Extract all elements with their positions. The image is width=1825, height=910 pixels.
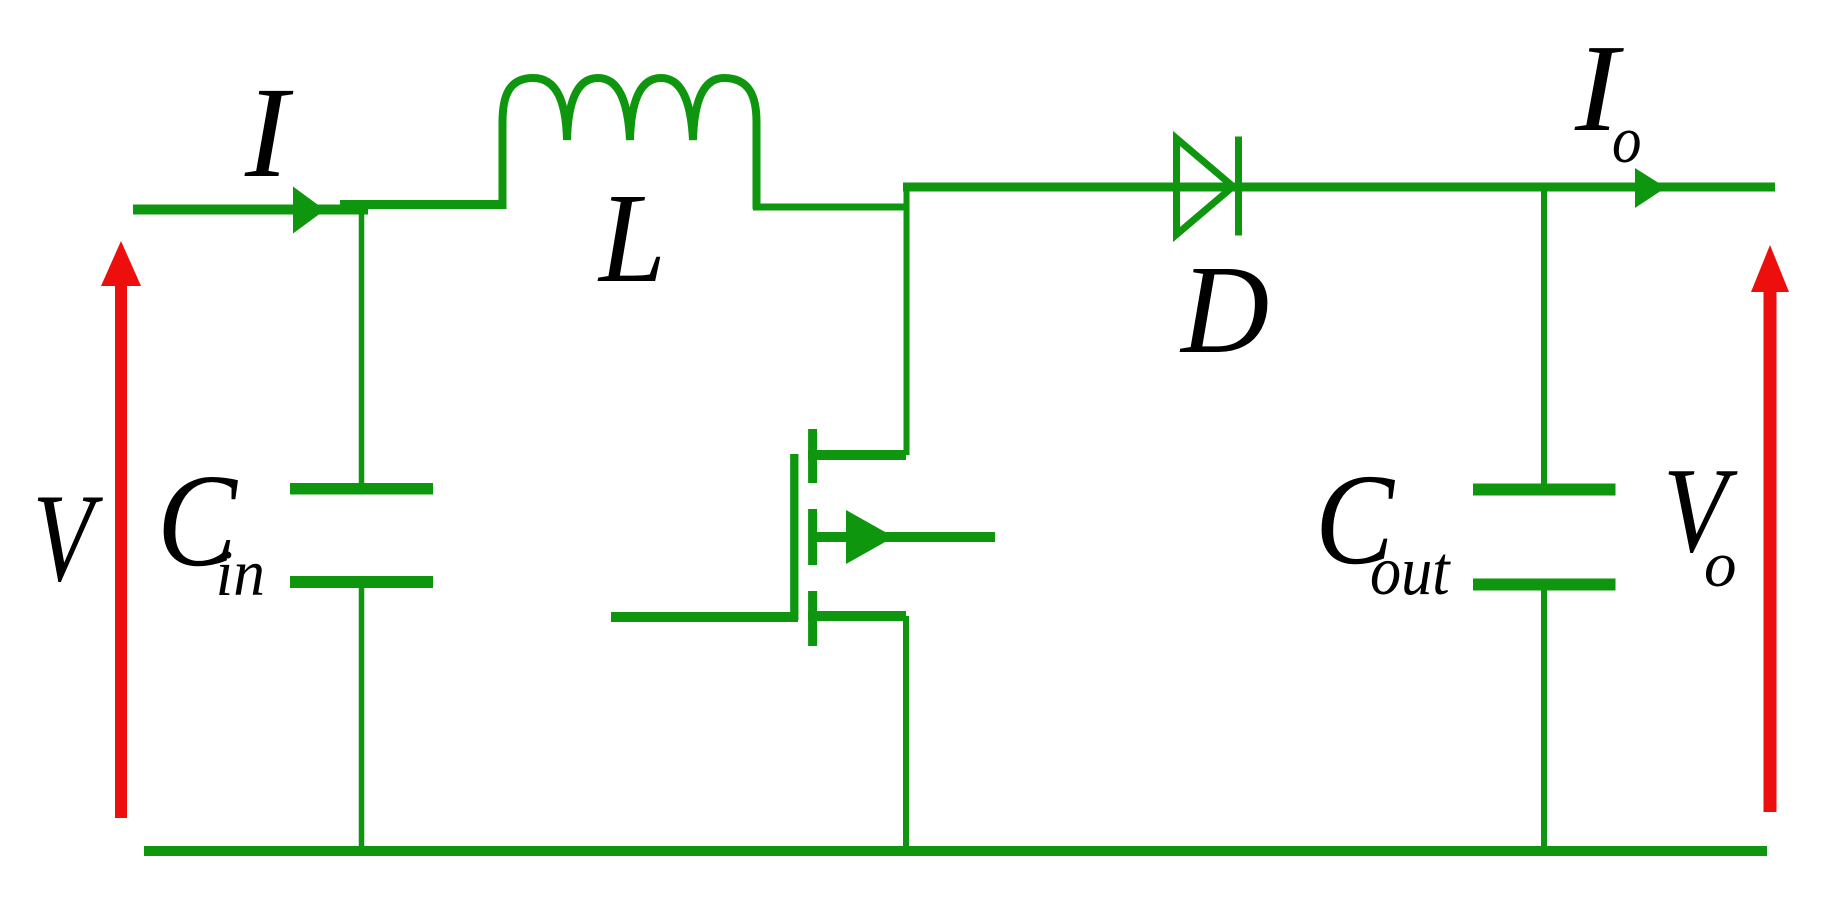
label Cin subscript in bbox=[216, 536, 265, 609]
transistor Q1 source lead bbox=[808, 611, 906, 621]
wire source riser bbox=[903, 616, 909, 851]
diode D triangle bbox=[1177, 139, 1234, 235]
capacitor Cout top plate bbox=[1473, 484, 1616, 496]
transistor Q1 gate lead wire bbox=[611, 612, 798, 622]
wire Cout top lead bbox=[1541, 187, 1547, 486]
svg-text:I: I bbox=[244, 61, 294, 205]
current arrowhead Io bbox=[1635, 168, 1666, 208]
svg-text:o: o bbox=[1612, 103, 1641, 177]
transistor Q1 channel middle bar bbox=[808, 509, 817, 565]
wire input segment bbox=[133, 205, 368, 215]
transistor Q1 body lead wire bbox=[813, 532, 995, 542]
voltage arrow Vo head bbox=[1751, 245, 1789, 292]
inductor L bbox=[503, 78, 757, 209]
label Cout bbox=[1315, 447, 1396, 591]
label Vo subscript o bbox=[1704, 529, 1737, 601]
label Io I bbox=[1574, 19, 1624, 157]
label V bbox=[33, 468, 104, 608]
capacitor Cout bottom plate bbox=[1473, 579, 1616, 591]
svg-text:o: o bbox=[1704, 529, 1737, 601]
wire ground rail bbox=[144, 846, 1767, 856]
wire node A to inductor bbox=[340, 200, 506, 209]
label I bbox=[244, 61, 294, 205]
voltage arrow Vo shaft bbox=[1764, 289, 1777, 812]
voltage arrow V shaft bbox=[115, 283, 127, 818]
label D bbox=[1179, 239, 1269, 379]
wire Cout bottom lead bbox=[1541, 587, 1547, 851]
diode D cathode bar bbox=[1235, 137, 1242, 236]
current arrowhead I bbox=[293, 187, 325, 234]
transistor Q1 channel bottom bar bbox=[808, 591, 817, 646]
transistor Q1 gate bar bbox=[790, 454, 798, 620]
svg-text:L: L bbox=[597, 167, 666, 309]
label Vo V bbox=[1663, 442, 1738, 578]
transistor Q1 drain lead bbox=[808, 450, 906, 460]
svg-text:out: out bbox=[1370, 533, 1451, 610]
transistor Q1 body arrowhead bbox=[846, 510, 894, 564]
label Io subscript o bbox=[1612, 103, 1641, 177]
voltage arrow V head bbox=[101, 241, 141, 286]
label L bbox=[597, 167, 666, 309]
wire Cin top lead bbox=[359, 204, 365, 486]
svg-text:D: D bbox=[1179, 239, 1269, 379]
svg-text:V: V bbox=[33, 468, 104, 608]
wire Cin bottom lead bbox=[359, 585, 365, 851]
wire drain riser bbox=[904, 184, 910, 455]
wire inductor to drain node bbox=[753, 204, 906, 211]
capacitor Cin top plate bbox=[290, 483, 433, 495]
transistor Q1 channel top bar bbox=[808, 429, 817, 483]
capacitor Cin bottom plate bbox=[290, 576, 433, 588]
wire top rail right bbox=[903, 183, 1775, 192]
svg-text:in: in bbox=[216, 536, 265, 609]
label Cout subscript out bbox=[1370, 533, 1451, 610]
label Cin bbox=[157, 447, 238, 594]
